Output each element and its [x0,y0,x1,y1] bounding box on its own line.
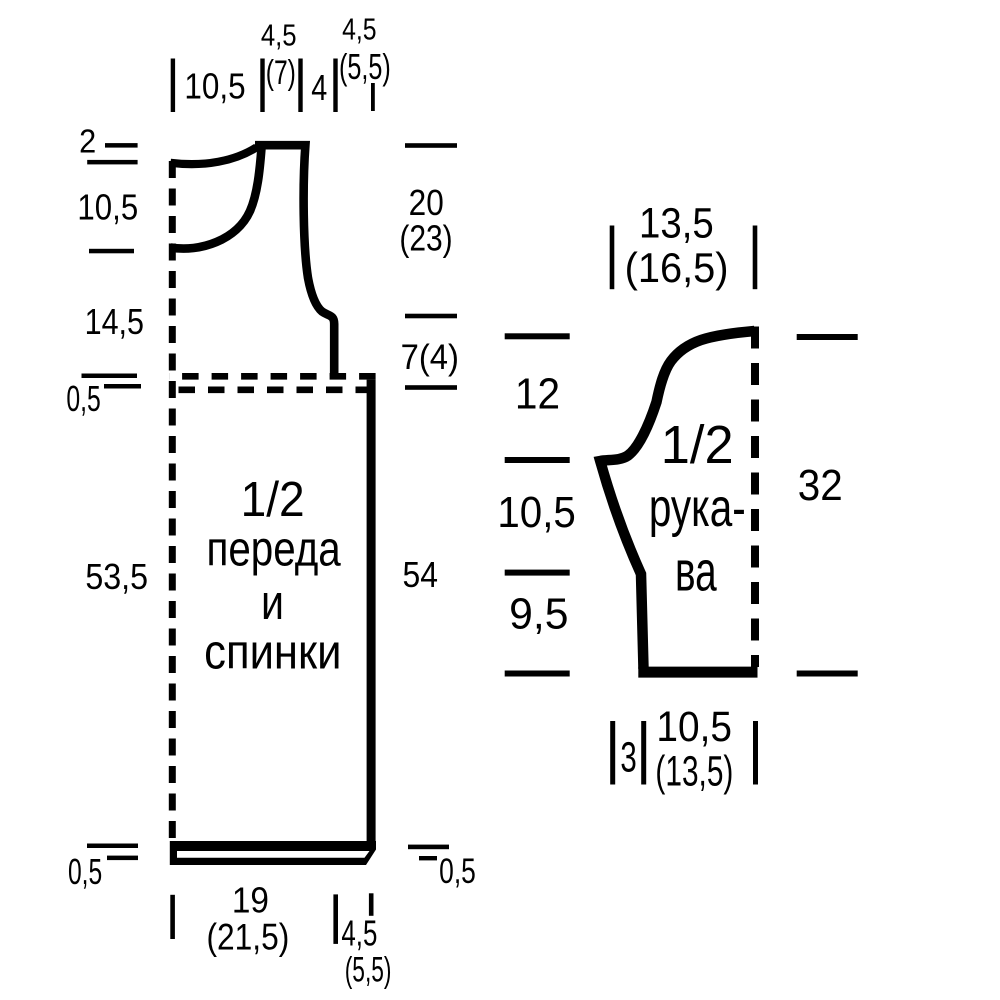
sleeve right mark top [797,334,858,340]
svg-text:(23): (23) [399,219,452,259]
tick bottom left [170,895,175,939]
level mark hem lower [107,856,138,861]
svg-text:(5,5): (5,5) [345,951,392,990]
svg-text:3: 3 [620,733,636,781]
tick bottom mid [333,894,338,944]
svg-text:переда: переда [206,521,340,577]
tick top row 2 [260,59,264,113]
tick bottom right short [369,893,374,916]
level mark shoulder right [405,143,457,148]
level mark hem right lower [419,856,437,860]
sleeve left mark cap base [505,457,570,463]
svg-text:(16,5): (16,5) [625,244,729,291]
bottom hem double band [170,841,376,865]
sleeve bottom tick 2 [641,721,646,785]
level mark hem upper [87,844,138,849]
waist double dashed line (upper) [169,373,376,380]
sleeve left mark cap top [505,333,570,339]
sleeve top tick left [610,226,615,290]
svg-text:ва: ва [675,540,717,603]
tick top row 3 [298,59,302,113]
tick top row 5 short [371,83,375,111]
body right side seam line [367,380,376,846]
level mark waist upper [82,374,138,379]
tick top row 1 [171,59,175,113]
svg-text:14,5: 14,5 [85,303,144,343]
svg-text:1/2: 1/2 [661,415,734,475]
shoulder and armhole edge [255,145,334,376]
back neckline curve [171,147,257,164]
svg-text:и: и [261,575,284,630]
sleeve bottom tick 1 [610,721,615,785]
front neckline curve [171,148,262,249]
svg-text:1/2: 1/2 [241,473,305,528]
svg-text:32: 32 [798,460,843,509]
level mark waist lower [104,384,141,389]
svg-text:4,5: 4,5 [342,12,376,46]
svg-text:0,5: 0,5 [439,852,476,892]
svg-text:19: 19 [232,881,269,920]
level mark armhole right [405,314,457,319]
svg-text:(13,5): (13,5) [655,746,733,795]
level mark 2 upper [105,143,138,148]
svg-text:9,5: 9,5 [509,590,568,639]
level mark hem right upper [408,845,449,850]
svg-text:12: 12 [515,369,560,418]
svg-text:7(4): 7(4) [401,338,459,377]
svg-text:10,5: 10,5 [77,188,138,228]
tick top row 4 [333,59,337,113]
level mark 2 lower [87,160,137,165]
svg-text:54: 54 [402,555,437,595]
svg-text:(5,5): (5,5) [339,47,391,88]
sleeve fold dashed line [751,327,759,668]
svg-text:10,5: 10,5 [497,487,575,536]
svg-text:0,5: 0,5 [66,378,100,419]
svg-text:4: 4 [311,67,327,108]
svg-text:рука-: рука- [649,479,746,539]
sleeve top tick right [753,226,758,290]
svg-text:20: 20 [409,183,444,223]
waist double dashed line (lower) [169,386,372,393]
svg-text:(7): (7) [266,54,296,92]
svg-text:4,5: 4,5 [341,913,377,953]
svg-text:(21,5): (21,5) [207,917,290,958]
svg-text:10,5: 10,5 [184,66,245,106]
level mark waist right [405,385,457,390]
svg-text:4,5: 4,5 [261,18,297,53]
sleeve bottom tick 3 [753,721,758,785]
level mark front neck [89,249,134,254]
svg-text:53,5: 53,5 [85,557,148,597]
sleeve left mark cuff [505,671,570,677]
svg-text:2: 2 [79,122,96,159]
sleeve cuff bottom bar [638,667,757,678]
sleeve left mark mid [505,570,570,576]
svg-text:13,5: 13,5 [639,199,714,248]
svg-text:0,5: 0,5 [68,851,102,892]
body left fold dashed line [169,160,176,838]
sleeve right mark cuff [797,671,858,677]
svg-text:10,5: 10,5 [656,702,732,750]
svg-text:спинки: спинки [204,624,341,679]
sleeve cap curve and underarm seam [600,331,754,669]
